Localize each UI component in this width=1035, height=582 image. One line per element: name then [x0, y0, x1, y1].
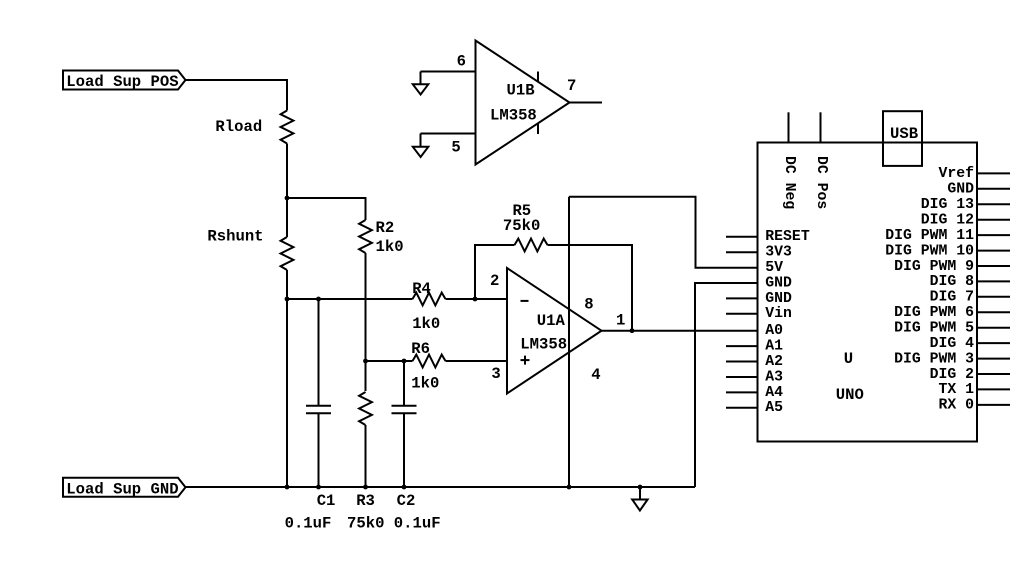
pin A5 (left): [726, 400, 783, 416]
svg-text:DIG PWM 11: DIG PWM 11: [885, 228, 974, 244]
svg-text:DC Neg: DC Neg: [781, 156, 797, 209]
svg-text:DIG 2: DIG 2: [930, 367, 975, 383]
wire: U1B output pin 7: [570, 102, 603, 104]
svg-text:LM358: LM358: [520, 335, 567, 353]
wire: R3 top lead: [365, 361, 367, 391]
resistor R2: [359, 220, 372, 253]
pin 3V3 (left): [726, 245, 792, 261]
junction sense node at shunt top: [285, 297, 290, 302]
resistor Rload: [281, 111, 294, 144]
svg-text:0.1uF: 0.1uF: [285, 515, 332, 533]
pin A0 (left): [765, 323, 783, 339]
junction output node (pin 1 / feedback): [630, 328, 635, 333]
wire: R2 bottom to R6 node (crosses sense row): [365, 253, 367, 361]
svg-text:3V3: 3V3: [765, 245, 792, 261]
pin DC Neg: [788, 112, 790, 142]
wire: U1B pin 6 input: [421, 71, 476, 73]
wire: POS flag to Rload top corner: [186, 80, 288, 111]
pin RESET (left): [726, 229, 810, 245]
svg-text:75k0: 75k0: [503, 217, 540, 235]
svg-text:Rshunt: Rshunt: [207, 228, 263, 246]
junction R6 row left (R2/R3 node): [363, 359, 368, 364]
wire: R3 bottom lead to ground rail: [365, 425, 367, 487]
wire: R4 to op-amp pin 2: [446, 298, 508, 300]
junction feedback tap at pin 2: [473, 297, 478, 302]
ground symbol (main): [632, 487, 647, 511]
pin DIG PWM 3 (right): [894, 351, 1010, 367]
pin GND (right): [947, 182, 1010, 198]
pin DIG PWM 5 (right): [894, 321, 1010, 337]
svg-text:R6: R6: [411, 340, 430, 358]
svg-text:TX 1: TX 1: [938, 382, 974, 398]
svg-text:Vref: Vref: [938, 166, 974, 182]
wire: R5 to output node: [548, 245, 633, 331]
svg-text:U1A: U1A: [537, 312, 566, 330]
ground symbol (U1B pin 6): [413, 72, 429, 95]
junction node1 (Rload/Rshunt/R2): [285, 196, 290, 201]
op-amp U1A: [507, 268, 602, 394]
U1B V- stub: [537, 124, 539, 134]
pin DIG 2 (right): [930, 367, 1010, 383]
svg-text:DIG PWM 5: DIG PWM 5: [894, 321, 974, 337]
svg-text:0.1uF: 0.1uF: [394, 515, 441, 533]
svg-text:GND: GND: [765, 291, 792, 307]
pin GND (left): [765, 275, 792, 291]
wire: feedback riser to R5: [475, 245, 515, 299]
junction Rshunt at rail: [285, 485, 290, 490]
U1A minus input mark: [521, 300, 529, 302]
pin DIG PWM 11 (right): [885, 228, 1010, 244]
svg-text:DIG PWM 10: DIG PWM 10: [885, 243, 974, 259]
pin A3 (left): [726, 369, 783, 385]
U1B V+ stub: [537, 72, 539, 82]
resistor R4: [413, 293, 446, 306]
Arduino UNO body U: [758, 143, 978, 442]
svg-text:DIG PWM 9: DIG PWM 9: [894, 259, 974, 275]
junction ground symbol tap: [638, 485, 643, 490]
net flag Load Sup GND: [63, 478, 186, 499]
svg-text:2: 2: [490, 272, 499, 290]
wire: U1A output to Arduino A0: [602, 330, 758, 332]
svg-text:R3: R3: [356, 492, 375, 510]
USB connector box: [883, 111, 922, 166]
ground symbol (U1B pin 5): [413, 134, 429, 158]
pin RX 0 (right): [938, 398, 1010, 414]
svg-text:USB: USB: [890, 125, 919, 143]
junction pin4 at rail: [567, 485, 572, 490]
pin Vin (left): [726, 306, 792, 322]
pin A2 (left): [726, 354, 783, 370]
svg-text:DIG PWM 6: DIG PWM 6: [894, 305, 974, 321]
wire: pin 8 to 5V rail: [569, 197, 758, 268]
wire: C1 bottom lead: [318, 413, 320, 487]
pin DIG PWM 9 (right): [894, 259, 1010, 275]
svg-text:1: 1: [616, 311, 625, 329]
svg-text:A3: A3: [765, 369, 783, 385]
svg-text:DIG 7: DIG 7: [930, 290, 974, 306]
svg-text:DIG 8: DIG 8: [930, 274, 975, 290]
svg-text:Load Sup GND: Load Sup GND: [66, 480, 178, 498]
wire: R6 to op-amp pin 3: [446, 360, 508, 362]
junction C2 tap: [402, 359, 407, 364]
svg-text:1k0: 1k0: [376, 238, 404, 256]
pin DIG 7 (right): [930, 290, 1010, 306]
resistor R3: [359, 392, 372, 425]
wire: C2 top lead: [403, 361, 405, 405]
svg-text:1k0: 1k0: [411, 375, 439, 393]
wire: sense row to R4: [287, 298, 413, 300]
svg-text:Vin: Vin: [765, 306, 792, 322]
svg-text:Rload: Rload: [215, 118, 262, 136]
svg-text:RX 0: RX 0: [938, 398, 974, 414]
wire: Rshunt bottom down to ground rail: [286, 270, 288, 487]
op-amp U1B: [476, 41, 570, 165]
junction C1 tap: [316, 297, 321, 302]
svg-text:U: U: [844, 350, 853, 368]
svg-text:DC Pos: DC Pos: [813, 156, 829, 209]
svg-text:DIG 13: DIG 13: [921, 197, 974, 213]
svg-text:5V: 5V: [765, 260, 783, 276]
pin A4 (left): [726, 385, 783, 401]
wire: rail to Arduino GND: [695, 283, 758, 487]
svg-text:UNO: UNO: [836, 386, 864, 404]
resistor R6: [413, 355, 446, 368]
svg-text:1k0: 1k0: [412, 315, 440, 333]
svg-text:5: 5: [451, 139, 460, 157]
svg-text:8: 8: [584, 296, 593, 314]
net flag Load Sup POS: [63, 71, 186, 92]
svg-text:DIG PWM 3: DIG PWM 3: [894, 351, 974, 367]
capacitor C2: [392, 406, 417, 414]
resistor Rshunt: [281, 237, 294, 270]
pin DIG 8 (right): [930, 274, 1010, 290]
svg-text:C2: C2: [397, 492, 416, 510]
pin DC Pos: [820, 112, 822, 142]
svg-text:R2: R2: [376, 219, 395, 237]
pin TX 1 (right): [938, 382, 1010, 398]
wire: ground rail: [186, 486, 696, 488]
pin DIG 12 (right): [921, 213, 1010, 229]
pin DIG PWM 6 (right): [894, 305, 1010, 321]
wire: node1 to R2 top: [287, 198, 366, 220]
svg-text:GND: GND: [765, 275, 792, 291]
svg-text:DIG 4: DIG 4: [930, 336, 975, 352]
svg-text:6: 6: [457, 53, 466, 71]
svg-text:A1: A1: [765, 339, 783, 355]
svg-text:A2: A2: [765, 354, 783, 370]
svg-text:Load Sup POS: Load Sup POS: [66, 73, 178, 91]
pin 5V (left): [765, 260, 783, 276]
svg-text:3: 3: [491, 365, 500, 383]
junction R3 at rail: [363, 485, 368, 490]
wire: C2 bottom lead: [403, 413, 405, 487]
svg-text:LM358: LM358: [490, 107, 537, 125]
svg-text:RESET: RESET: [765, 229, 810, 245]
wire: U1B pin 5 input: [421, 133, 476, 135]
svg-text:A0: A0: [765, 323, 783, 339]
wire: R6 row to R6: [366, 360, 413, 362]
svg-text:A5: A5: [765, 400, 783, 416]
pin DIG 4 (right): [930, 336, 1010, 352]
pin Vref (right): [938, 166, 1010, 182]
svg-text:4: 4: [591, 366, 600, 384]
pin DIG PWM 10 (right): [885, 243, 1010, 259]
svg-text:R4: R4: [412, 280, 431, 298]
wire: U1A power rail pin8/pin4 vertical: [568, 197, 570, 487]
svg-text:DIG 12: DIG 12: [921, 213, 974, 229]
wire: Rload to node1: [286, 144, 288, 199]
svg-text:75k0: 75k0: [347, 515, 384, 533]
junction C2 at rail: [402, 485, 407, 490]
pin DIG 13 (right): [921, 197, 1010, 213]
U1A plus input mark: [521, 356, 530, 365]
resistor R5: [515, 239, 548, 252]
wire: node1 to Rshunt top: [286, 198, 288, 237]
wire: C1 top lead: [318, 299, 320, 405]
svg-text:C1: C1: [317, 492, 336, 510]
pin GND (left): [726, 291, 792, 307]
svg-text:U1B: U1B: [507, 82, 536, 100]
junction C1 at rail: [316, 485, 321, 490]
svg-text:7: 7: [567, 77, 576, 95]
svg-text:A4: A4: [765, 385, 783, 401]
svg-text:GND: GND: [947, 182, 974, 198]
pin A1 (left): [726, 339, 783, 355]
capacitor C1: [306, 406, 331, 414]
